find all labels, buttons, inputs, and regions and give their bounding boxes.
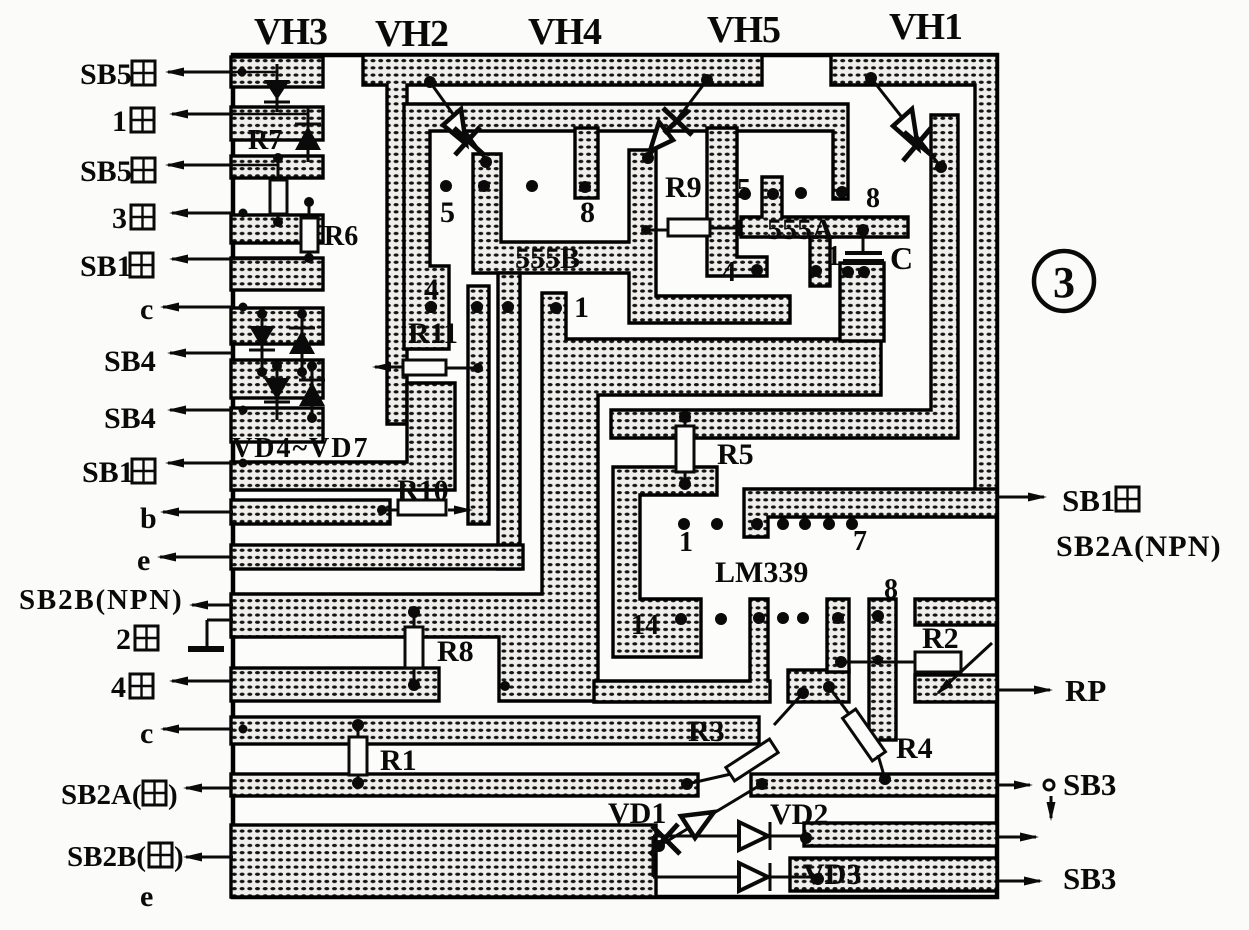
capacitor C [842,224,884,278]
svg-text:VH2: VH2 [375,13,448,55]
svg-text:RP: RP [1065,673,1106,708]
wire: left finger bar row 1 (SB5 right) [231,57,323,87]
svg-text:SB3: SB3 [1063,861,1116,896]
svg-text:VD1: VD1 [608,797,666,830]
resistor R1 [349,719,367,789]
wire: 555B pin3 column [468,286,489,524]
svg-text:4: 4 [424,273,439,306]
diode VH5 jumper [642,74,713,164]
svg-text:R8: R8 [437,635,474,668]
svg-text:SB1: SB1 [82,456,134,489]
svg-text:SB4: SB4 [104,345,156,378]
svg-text:R2: R2 [922,622,959,655]
right arrow middle [997,836,1036,839]
svg-text:e: e [140,880,153,913]
svg-text:4: 4 [722,257,736,288]
wire: 555B pin6 column + 555B band + VH5 column + VH5 band [473,150,790,323]
svg-text:VD3: VD3 [803,858,861,891]
svg-text:LM339: LM339 [715,556,808,589]
svg-text:SB2B(: SB2B( [67,841,146,873]
wire: 4-hole band [231,668,439,701]
wire: left finger bar row 7 (SB4) [231,360,323,398]
svg-text:): ) [174,841,184,873]
diode VD7 (up) [299,361,325,423]
svg-text:c: c [140,717,153,750]
wire: big bottom band [231,825,656,897]
wire: column S (LM339 pin8) [869,599,896,740]
resistor R3 diagonal [681,687,809,790]
wire: b bar [231,500,390,524]
svg-text:SB1: SB1 [80,250,132,283]
svg-text:C: C [890,240,913,276]
resistor R8 [405,606,423,691]
svg-text:b: b [140,502,157,535]
svg-text:7: 7 [853,526,867,557]
svg-text:3: 3 [1053,258,1075,307]
svg-text:8: 8 [866,183,880,214]
diode VH1 jumper [865,72,947,173]
svg-text:SB2B(NPN): SB2B(NPN) [19,584,183,616]
resistor R7 [270,153,287,227]
wire: LM339 pin14 C-shape [613,467,717,657]
wire: left finger bar row 6 (c) [231,308,323,344]
svg-text:R11: R11 [408,317,458,350]
svg-text:): ) [168,779,178,811]
svg-text:R1: R1 [380,744,417,777]
LM339 pin dots bottom row [675,613,687,625]
svg-text:R5: R5 [717,438,754,471]
svg-text:R7: R7 [248,125,282,156]
555A pin dots top [739,188,751,200]
svg-text:e: e [137,544,150,577]
svg-text:5: 5 [737,174,751,205]
svg-text:14: 14 [631,610,659,641]
555B pin dots bottom [425,301,437,313]
svg-text:SB4: SB4 [104,402,156,435]
wire: 555A bar with pin5 stub [741,177,908,237]
svg-text:VH3: VH3 [254,11,327,53]
diode VD5 (up) [289,309,315,377]
resistor R9 [641,219,741,236]
resistor R11 with arrow [375,360,483,375]
misc dot right of R8 notch [500,681,510,691]
svg-text:4: 4 [111,671,126,704]
wire: 555B pin2 column [498,273,520,569]
diode VD3 [653,836,824,891]
board outline [233,55,997,897]
svg-text:1: 1 [679,527,693,558]
svg-text:SB1: SB1 [1062,483,1115,518]
svg-text:SB2A(NPN): SB2A(NPN) [1056,530,1222,563]
diode VD2 [653,822,812,850]
wire: top band right + right border column [831,55,997,497]
svg-text:VH5: VH5 [707,9,780,51]
entry dots on left bars [239,209,248,218]
svg-text:VH4: VH4 [528,11,602,53]
svg-text:SB3: SB3 [1063,767,1116,802]
wire: SB2A moving bar [231,774,698,796]
wire: junction pad [788,670,849,702]
svg-text:VH1: VH1 [889,6,962,48]
wire: R5 band + VH1 inner column [611,115,958,438]
resistor R6 [301,197,318,263]
resistor R4 diagonal [823,681,891,785]
555B pin dots top [440,180,452,192]
wire: top band left + left ring column [363,55,762,424]
svg-text:R3: R3 [688,715,725,748]
svg-text:c: c [140,293,153,326]
wire: left finger bar row 4 (3 hole) [231,215,323,243]
resistor R2 with pot arrow [835,643,992,693]
connector wires inside left bars [233,71,277,74]
svg-text:555A: 555A [767,213,834,246]
svg-text:8: 8 [580,196,595,229]
wire: pin1 stub + big band + wide column + SB2B band + blob [231,293,881,701]
wire: 555B pin8 stub [575,128,598,198]
svg-text:SB2A(: SB2A( [61,779,142,811]
diode VD (top-left, pointing down) [264,64,290,112]
svg-text:R4: R4 [896,732,933,765]
svg-text:1: 1 [827,241,841,272]
wire: SB3 bar [751,774,997,796]
diode VD (pointing up, right of R7) [295,107,321,162]
svg-text:R6: R6 [324,221,358,252]
diode VD6 (down) [264,361,290,420]
diode VD4 (down) [249,309,275,377]
wire: RP bar [915,675,997,702]
svg-text:R9: R9 [665,171,702,204]
svg-text:3: 3 [112,202,127,235]
svg-text:SB5: SB5 [80,58,132,91]
wire: R2 top bar [915,599,997,625]
LM339 pin dots top row [678,518,690,530]
wire: mid-right bar [804,823,997,846]
svg-text:1: 1 [112,105,127,138]
wire: SB1-left band [744,489,997,537]
figure number 3 circled [1034,251,1094,311]
svg-text:8: 8 [884,574,898,605]
wire: c band [231,717,759,744]
wire: left finger bar row 2 (1 hole) [231,107,323,140]
555A pin dots bottom [751,264,763,276]
wire: bottom-right bar [790,858,997,891]
svg-text:VD4~VD7: VD4~VD7 [232,433,369,464]
diode VD1 diagonal [650,778,768,855]
svg-text:2: 2 [116,623,131,656]
svg-text:VD2: VD2 [770,798,828,831]
wire: lower pin column P and L band [594,599,770,702]
R8 top node on band [425,301,437,313]
svg-text:SB5: SB5 [80,155,132,188]
wire: capacitor C block [840,263,884,341]
wire: left finger bar row 8 (SB4) [231,408,323,442]
wire: left finger bar row 3 (SB5 left) [231,156,323,178]
svg-text:R10: R10 [397,474,449,507]
wire: e band [231,545,523,569]
wire: SB1-right bar with riser [231,383,455,490]
svg-text:5: 5 [440,196,455,229]
svg-text:555B: 555B [515,242,580,275]
resistor R5 [676,411,694,490]
diode VH2 jumper [424,76,492,168]
resistor R10 with arrow [377,500,470,515]
wire: 555A pin1 column [810,237,830,286]
wire: band B with 555B pin4 pad and 555A pin8 hook [404,104,848,349]
wire: left finger bar row 5 (SB1 mid) [231,258,323,290]
wire: column Q [827,599,849,672]
svg-text:1: 1 [574,291,589,324]
wire: middle column to 555A pin4 bar [707,128,767,276]
